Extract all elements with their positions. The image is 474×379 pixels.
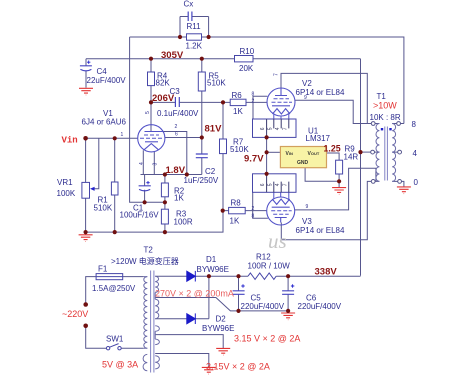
svg-text:338V: 338V	[315, 267, 338, 278]
svg-text:22uF/400V: 22uF/400V	[87, 76, 127, 85]
svg-text:1uF/250V: 1uF/250V	[184, 176, 219, 185]
svg-text:1: 1	[121, 132, 124, 138]
svg-text:270V × 2 @ 200mA: 270V × 2 @ 200mA	[155, 289, 234, 299]
svg-text:R12: R12	[256, 253, 271, 262]
svg-text:5: 5	[268, 127, 274, 130]
svg-text:R6: R6	[232, 91, 243, 100]
svg-text:D2: D2	[216, 315, 227, 324]
svg-text:3.15V × 2 @ 2A: 3.15V × 2 @ 2A	[206, 362, 270, 372]
svg-text:8: 8	[252, 92, 255, 98]
svg-text:7: 7	[283, 183, 289, 186]
svg-text:SW1: SW1	[106, 335, 124, 344]
svg-text:14R: 14R	[344, 152, 359, 161]
svg-text:4: 4	[275, 127, 281, 130]
svg-text:7: 7	[283, 127, 289, 130]
svg-text:8: 8	[252, 214, 255, 220]
svg-text:R11: R11	[187, 22, 202, 31]
svg-text:7: 7	[274, 73, 280, 76]
svg-text:4: 4	[275, 183, 281, 186]
svg-text:10K : 8R: 10K : 8R	[370, 113, 401, 122]
svg-text:100uF/16V: 100uF/16V	[120, 211, 160, 220]
svg-text:81V: 81V	[205, 123, 223, 134]
svg-text:F1: F1	[98, 265, 108, 274]
svg-text:BYW96E: BYW96E	[197, 265, 229, 274]
svg-text:1.5A@250V: 1.5A@250V	[92, 284, 136, 293]
svg-text:9.7V: 9.7V	[244, 153, 264, 164]
svg-text:8: 8	[412, 120, 417, 129]
svg-text:82K: 82K	[156, 79, 171, 88]
svg-text:5: 5	[145, 111, 151, 114]
svg-text:1K: 1K	[230, 217, 240, 226]
svg-text:C2: C2	[205, 167, 216, 176]
svg-text:9: 9	[304, 95, 307, 101]
svg-text:100R: 100R	[174, 218, 193, 227]
svg-text:3.15 V × 2 @ 2A: 3.15 V × 2 @ 2A	[234, 334, 300, 344]
svg-text:0.1uF/400V: 0.1uF/400V	[157, 109, 199, 118]
svg-text:6: 6	[175, 132, 178, 138]
svg-text:220uF/400V: 220uF/400V	[298, 302, 342, 311]
svg-text:6: 6	[260, 127, 266, 130]
svg-text:Cx: Cx	[184, 0, 194, 9]
svg-text:2: 2	[252, 99, 255, 105]
svg-text:V3: V3	[302, 217, 312, 226]
svg-text:6P14 or EL84: 6P14 or EL84	[296, 88, 345, 97]
svg-text:220uF/400V: 220uF/400V	[241, 302, 285, 311]
svg-text:1.8V: 1.8V	[166, 165, 186, 176]
svg-text:V2: V2	[302, 79, 312, 88]
svg-text:1K: 1K	[233, 107, 243, 116]
svg-text:20K: 20K	[239, 64, 254, 73]
svg-text:9: 9	[306, 204, 309, 210]
svg-text:100K: 100K	[57, 189, 76, 198]
svg-text:0: 0	[414, 178, 419, 187]
svg-text:4: 4	[139, 162, 145, 165]
svg-text:1K: 1K	[174, 194, 184, 203]
svg-text:LM317: LM317	[306, 134, 331, 143]
svg-text:VR1: VR1	[57, 178, 73, 187]
svg-text:100R / 10W: 100R / 10W	[248, 262, 291, 271]
svg-text:T2: T2	[144, 246, 154, 255]
svg-text:>120W 电源变压器: >120W 电源变压器	[111, 256, 179, 266]
svg-text:Vin: Vin	[62, 136, 78, 146]
svg-text:4: 4	[413, 149, 418, 158]
svg-text:510K: 510K	[207, 79, 226, 88]
svg-text:305V: 305V	[161, 50, 184, 61]
svg-text:GND: GND	[297, 160, 309, 166]
svg-text:R10: R10	[240, 47, 255, 56]
svg-text:2: 2	[175, 124, 178, 130]
svg-text:5V @ 3A: 5V @ 3A	[102, 360, 138, 370]
svg-text:C4: C4	[97, 67, 108, 76]
svg-text:206V: 206V	[152, 93, 175, 104]
svg-text:510K: 510K	[94, 204, 113, 213]
svg-text:6: 6	[260, 183, 266, 186]
svg-text:5: 5	[268, 183, 274, 186]
svg-text:1.25: 1.25	[324, 143, 341, 153]
svg-text:>10W: >10W	[373, 101, 397, 111]
svg-text:6J4 or 6AU6: 6J4 or 6AU6	[82, 118, 127, 127]
svg-text:D1: D1	[206, 255, 217, 264]
svg-text:1.2K: 1.2K	[186, 42, 203, 51]
svg-text:R8: R8	[231, 199, 242, 208]
svg-text:~220V: ~220V	[62, 309, 88, 319]
svg-text:BYW96E: BYW96E	[202, 324, 234, 333]
svg-text:6P14 or EL84: 6P14 or EL84	[296, 226, 345, 235]
svg-text:3: 3	[153, 163, 159, 166]
svg-text:us: us	[268, 229, 287, 253]
svg-text:2: 2	[252, 206, 255, 212]
